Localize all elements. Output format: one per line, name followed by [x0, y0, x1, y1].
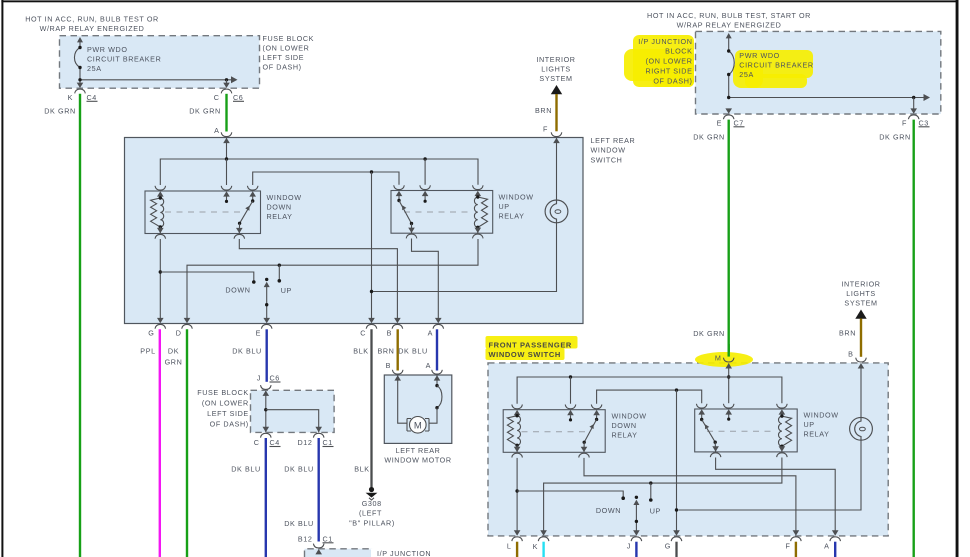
svg-text:DK GRN: DK GRN	[693, 132, 725, 141]
highlight blob I/P junction block label	[624, 35, 694, 87]
hot in acc label top-right	[647, 11, 811, 30]
wire: pin A to bus1	[226, 138, 228, 159]
svg-text:A: A	[426, 361, 431, 370]
breaker value label right	[739, 51, 813, 79]
svg-text:FRONT PASSENGER: FRONT PASSENGER	[489, 340, 572, 349]
wire: bus2 node to pin G	[675, 390, 678, 530]
svg-text:K: K	[68, 93, 73, 102]
wire BLK from pin G	[675, 542, 677, 557]
svg-text:B12: B12	[298, 534, 313, 543]
relay U3 linkage dashed line	[522, 431, 588, 433]
svg-text:RELAY: RELAY	[267, 212, 293, 221]
svg-text:DOWN: DOWN	[225, 285, 250, 294]
I/P junction block (bottom, partial)	[305, 549, 432, 557]
page border frame top	[1, 0, 958, 2]
wire DK BLU from pin J	[635, 542, 637, 557]
motor internal breaker	[429, 376, 442, 424]
svg-text:LEFT REAR: LEFT REAR	[396, 446, 441, 455]
relay U2 switch contacts	[397, 196, 426, 233]
svg-text:J: J	[627, 542, 631, 551]
svg-text:M: M	[715, 354, 722, 363]
svg-text:WINDOW: WINDOW	[499, 193, 534, 202]
svg-text:(ON LOWER: (ON LOWER	[263, 44, 310, 53]
highlight pin M	[695, 352, 753, 367]
wire: U4 switch to pin A	[716, 458, 836, 531]
svg-text:25A: 25A	[739, 70, 754, 79]
svg-text:C3: C3	[919, 118, 929, 127]
svg-text:UP: UP	[804, 420, 815, 429]
circuit breaker PWR WDO 25A (right)	[726, 33, 735, 98]
hot in acc label top-left	[25, 15, 159, 34]
svg-text:RIGHT SIDE: RIGHT SIDE	[645, 67, 692, 76]
svg-text:BRN: BRN	[839, 329, 856, 338]
svg-text:C: C	[214, 93, 220, 102]
wire BRN to passenger switch pin B	[839, 319, 861, 357]
pin M (top)	[715, 344, 734, 368]
svg-text:CIRCUIT BREAKER: CIRCUIT BREAKER	[739, 61, 813, 70]
pin F (top)	[543, 125, 562, 144]
svg-text:B: B	[387, 329, 392, 338]
connector K C4	[68, 83, 98, 102]
svg-text:LEFT SIDE: LEFT SIDE	[263, 53, 305, 62]
svg-text:CIRCUIT BREAKER: CIRCUIT BREAKER	[87, 55, 161, 64]
svg-text:WINDOW SWITCH: WINDOW SWITCH	[489, 350, 561, 359]
wire: U3 switch to pin F	[584, 458, 796, 531]
relay U4 switch contacts	[700, 415, 730, 452]
window down relay label	[267, 193, 302, 221]
backlight bulb (left switch)	[373, 138, 568, 292]
svg-text:LEFT SIDE: LEFT SIDE	[207, 409, 249, 418]
connector C C4	[254, 438, 281, 447]
wire BLK from pin C to ground G308	[353, 329, 371, 487]
svg-text:HOT IN ACC, RUN, BULB TEST OR: HOT IN ACC, RUN, BULB TEST OR	[25, 15, 159, 24]
wire: pin M through bus to up relay stub	[727, 363, 730, 403]
motor terminals	[392, 370, 442, 381]
svg-text:C4: C4	[270, 438, 280, 447]
page border frame right	[956, 0, 959, 557]
ground G308	[349, 487, 395, 527]
svg-text:DK GRN: DK GRN	[189, 106, 221, 115]
motor label	[384, 446, 451, 465]
svg-text:J: J	[257, 374, 261, 383]
svg-text:DK GRN: DK GRN	[693, 329, 725, 338]
svg-text:A: A	[428, 329, 433, 338]
svg-text:E: E	[717, 118, 722, 127]
relay U4 coil with resistor	[779, 414, 792, 452]
relay U4 terminals bottom	[710, 446, 787, 457]
svg-text:OF DASH): OF DASH)	[210, 420, 249, 429]
wire DK BLU from C1 to B12/C1	[284, 438, 318, 542]
fuse block 2 label	[197, 388, 249, 429]
wire DK GRN from C6 to switch pin A	[189, 94, 226, 132]
connector E C7	[717, 108, 745, 127]
svg-text:LIGHTS: LIGHTS	[541, 65, 571, 74]
svg-text:UP: UP	[650, 506, 661, 515]
svg-text:INTERIOR: INTERIOR	[841, 280, 880, 289]
svg-text:DK BLU: DK BLU	[284, 465, 314, 474]
wire BRN from pin F	[795, 542, 797, 557]
wire DK BLU from C4 (runs to page bottom)	[231, 438, 266, 557]
highlight blob PWR WDO breaker label (right)	[733, 50, 813, 88]
svg-text:HOT IN ACC, RUN, BULB TEST, ST: HOT IN ACC, RUN, BULB TEST, START OR	[647, 11, 811, 20]
I/P junction block dashed box	[696, 31, 941, 114]
left rear window switch label	[591, 136, 636, 165]
wire DK BLU from pin A	[834, 542, 836, 557]
svg-text:BRN: BRN	[378, 347, 395, 356]
passenger switch bottom terminals L K J G F A	[512, 530, 841, 541]
wire: down relay coil to pin G with branch to DOWN contact	[159, 239, 256, 318]
fuse block 2 bottom terminals	[261, 427, 325, 438]
svg-text:L: L	[507, 542, 512, 551]
svg-text:"B" PILLAR): "B" PILLAR)	[349, 518, 395, 527]
svg-text:BLK: BLK	[354, 465, 369, 474]
bus2 wire (switched feed)	[253, 170, 399, 185]
fuse block 2 internal wires	[264, 391, 319, 432]
svg-text:(LEFT: (LEFT	[359, 509, 382, 518]
svg-text:WINDOW: WINDOW	[804, 411, 839, 420]
svg-text:LIGHTS: LIGHTS	[846, 289, 876, 298]
relay U1 linkage dashed line	[165, 211, 244, 213]
svg-text:W/RAP RELAY ENERGIZED: W/RAP RELAY ENERGIZED	[677, 21, 782, 30]
svg-text:D12: D12	[298, 438, 313, 447]
relay U3 switch contacts	[569, 415, 598, 452]
svg-text:F: F	[786, 542, 791, 551]
svg-text:I/P JUNCTION: I/P JUNCTION	[638, 37, 692, 46]
wire BRN to switch pin F	[535, 94, 556, 131]
backlight bulb (passenger switch)	[679, 363, 873, 510]
bus1 wire (power feed)	[160, 157, 478, 185]
svg-text:FUSE BLOCK: FUSE BLOCK	[197, 388, 249, 397]
window down relay U3 box	[503, 410, 605, 453]
page border frame left	[1, 0, 3, 557]
svg-text:C7: C7	[734, 118, 744, 127]
svg-text:FUSE BLOCK: FUSE BLOCK	[263, 34, 315, 43]
svg-text:C1: C1	[323, 534, 333, 543]
svg-text:W/RAP RELAY ENERGIZED: W/RAP RELAY ENERGIZED	[40, 24, 145, 33]
relay U4 terminals top	[696, 404, 787, 415]
pin B (top)	[848, 350, 866, 369]
wire PPL from pin G (runs to page bottom)	[140, 329, 159, 557]
window down relay U1 box	[145, 191, 261, 234]
motor pin labels B A	[386, 361, 431, 370]
svg-text:DK BLU: DK BLU	[232, 347, 262, 356]
svg-text:WINDOW: WINDOW	[267, 193, 302, 202]
relay U2 terminals top	[394, 185, 483, 196]
svg-text:OF DASH): OF DASH)	[653, 77, 692, 86]
wire LT BLU from pin K	[542, 542, 544, 557]
relay U2 terminals bottom	[406, 228, 483, 239]
svg-text:SYSTEM: SYSTEM	[539, 74, 572, 83]
wire: up relay switch to pin A	[412, 239, 439, 319]
svg-text:DOWN: DOWN	[612, 421, 637, 430]
wire: down relay switch to pin B	[239, 239, 397, 318]
svg-text:SYSTEM: SYSTEM	[844, 299, 877, 308]
wire DK GRN from C4 (runs to page bottom)	[44, 94, 80, 557]
passenger bottom pin labels	[507, 542, 830, 552]
relay U3 terminals bottom	[512, 447, 590, 458]
svg-text:LEFT REAR: LEFT REAR	[591, 136, 636, 145]
svg-text:25A: 25A	[87, 64, 102, 73]
svg-text:E: E	[256, 329, 261, 338]
svg-text:B: B	[386, 361, 391, 370]
fuse block label	[263, 34, 315, 72]
svg-text:PPL: PPL	[140, 347, 155, 356]
wire: pin D to UP contact and up relay coil	[187, 239, 478, 318]
svg-text:DK: DK	[168, 347, 179, 356]
wire DK GRN from C7 to passenger switch pin M	[693, 120, 728, 356]
relay U2 linkage dashed line	[404, 211, 469, 213]
svg-text:BLOCK: BLOCK	[665, 47, 692, 56]
relay U1 coil with resistor	[151, 196, 164, 233]
svg-text:A: A	[214, 126, 219, 135]
svg-text:(ON LOWER: (ON LOWER	[202, 399, 249, 408]
left switch bottom terminals G D E C B A	[155, 318, 444, 329]
wire: bus2 node to pin C (BLK output)	[370, 172, 373, 318]
svg-text:F: F	[902, 118, 907, 127]
relay U1 terminals top	[155, 186, 258, 197]
front passenger window switch label	[489, 340, 572, 359]
relay U1 terminals bottom	[155, 228, 245, 239]
bus2 wire passenger (switched feed)	[597, 388, 702, 403]
bus1 wire passenger (power feed)	[517, 375, 782, 403]
relay U1 switch contacts	[225, 197, 255, 234]
svg-text:BLK: BLK	[353, 347, 368, 356]
svg-text:RELAY: RELAY	[612, 431, 638, 440]
left rear window switch box	[125, 138, 584, 324]
svg-text:BRN: BRN	[535, 106, 552, 115]
svg-text:DK GRN: DK GRN	[879, 132, 911, 141]
connector C C6	[214, 83, 244, 102]
wire DK GRN from C3 (runs to page bottom)	[879, 120, 913, 557]
fuse block internal bus wire	[78, 76, 237, 87]
svg-text:DOWN: DOWN	[267, 203, 292, 212]
connector B12 C1	[298, 534, 334, 554]
svg-text:WINDOW: WINDOW	[591, 146, 626, 155]
relay U3 terminals top	[512, 405, 602, 416]
wire DK BLU from pin A to motor	[398, 329, 437, 370]
svg-text:GRN: GRN	[165, 358, 183, 367]
svg-text:UP: UP	[499, 202, 510, 211]
svg-text:DK BLU: DK BLU	[284, 519, 314, 528]
svg-text:C: C	[360, 329, 366, 338]
fuse block (lower left of dash) dashed box	[60, 36, 260, 88]
svg-text:B: B	[848, 350, 853, 359]
window up relay label	[499, 193, 534, 221]
svg-text:C4: C4	[87, 93, 97, 102]
svg-text:G308: G308	[362, 499, 382, 508]
svg-text:RELAY: RELAY	[804, 430, 830, 439]
svg-text:UP: UP	[281, 286, 292, 295]
wire BRN from pin B to motor	[378, 329, 398, 370]
svg-text:C6: C6	[233, 93, 243, 102]
svg-text:DOWN: DOWN	[596, 506, 621, 515]
left rear window motor box	[384, 375, 452, 443]
wire DK BLU from pin E to fuse block J/C6	[232, 329, 266, 382]
svg-text:G: G	[665, 542, 671, 551]
window up relay U4 box	[695, 409, 798, 452]
svg-text:RELAY: RELAY	[499, 212, 525, 221]
svg-text:I/P JUNCTION: I/P JUNCTION	[377, 549, 431, 557]
I/P junction block label text	[638, 37, 692, 86]
wire DK GRN from pin D (runs to page bottom)	[165, 329, 187, 557]
I/P junction internal bus wire	[727, 94, 930, 113]
highlight front passenger window switch label	[486, 336, 578, 360]
svg-text:A: A	[824, 542, 829, 551]
rocker switch DOWN/UP (left)	[225, 278, 292, 318]
wire BRN from pin L	[516, 542, 518, 557]
left switch bottom pin labels	[148, 329, 433, 338]
connector D12 C1	[298, 438, 334, 447]
svg-text:OF DASH): OF DASH)	[263, 63, 302, 72]
window up relay label (passenger)	[804, 411, 839, 439]
svg-text:F: F	[543, 125, 548, 134]
svg-text:C1: C1	[323, 438, 333, 447]
svg-text:(ON LOWER: (ON LOWER	[646, 57, 693, 66]
svg-text:D: D	[176, 329, 182, 338]
interior lights system connection (left)	[536, 55, 575, 94]
svg-text:DK GRN: DK GRN	[44, 106, 76, 115]
svg-text:G: G	[148, 329, 154, 338]
svg-text:SWITCH: SWITCH	[591, 156, 623, 165]
window down relay label (passenger)	[612, 412, 647, 440]
relay U3 coil with resistor	[507, 414, 520, 452]
interior lights system connection (right)	[841, 280, 880, 319]
fuse block (lower left) dashed box 2	[251, 390, 335, 432]
circuit breaker PWR WDO 25A (left)	[74, 37, 83, 87]
svg-text:PWR WDO: PWR WDO	[739, 51, 780, 60]
rocker switch DOWN/UP (passenger)	[596, 496, 661, 531]
svg-text:PWR WDO: PWR WDO	[87, 45, 128, 54]
svg-text:DK BLU: DK BLU	[398, 347, 428, 356]
svg-text:K: K	[533, 542, 538, 551]
motor M symbol	[398, 376, 429, 434]
wire: pin K to UP contact and U4 coil	[544, 458, 782, 531]
window up relay U2 box	[391, 191, 493, 234]
connector J C6	[257, 374, 281, 396]
pin A (top)	[214, 126, 232, 143]
svg-text:WINDOW MOTOR: WINDOW MOTOR	[384, 456, 451, 465]
relay U2 coil with resistor	[474, 195, 487, 233]
breaker value label PWR WDO CIRCUIT BREAKER 25A	[87, 45, 161, 73]
wire: U3 coil to pin L with branch to DOWN contact	[515, 458, 625, 531]
svg-text:M: M	[414, 421, 422, 432]
svg-text:WINDOW: WINDOW	[612, 412, 647, 421]
relay U4 linkage dashed line	[707, 430, 773, 432]
front passenger window switch dashed box	[488, 363, 888, 536]
svg-text:C6: C6	[270, 374, 280, 383]
svg-text:INTERIOR: INTERIOR	[536, 55, 575, 64]
svg-text:DK BLU: DK BLU	[231, 465, 261, 474]
connector F C3	[902, 108, 930, 127]
svg-text:C: C	[254, 438, 260, 447]
